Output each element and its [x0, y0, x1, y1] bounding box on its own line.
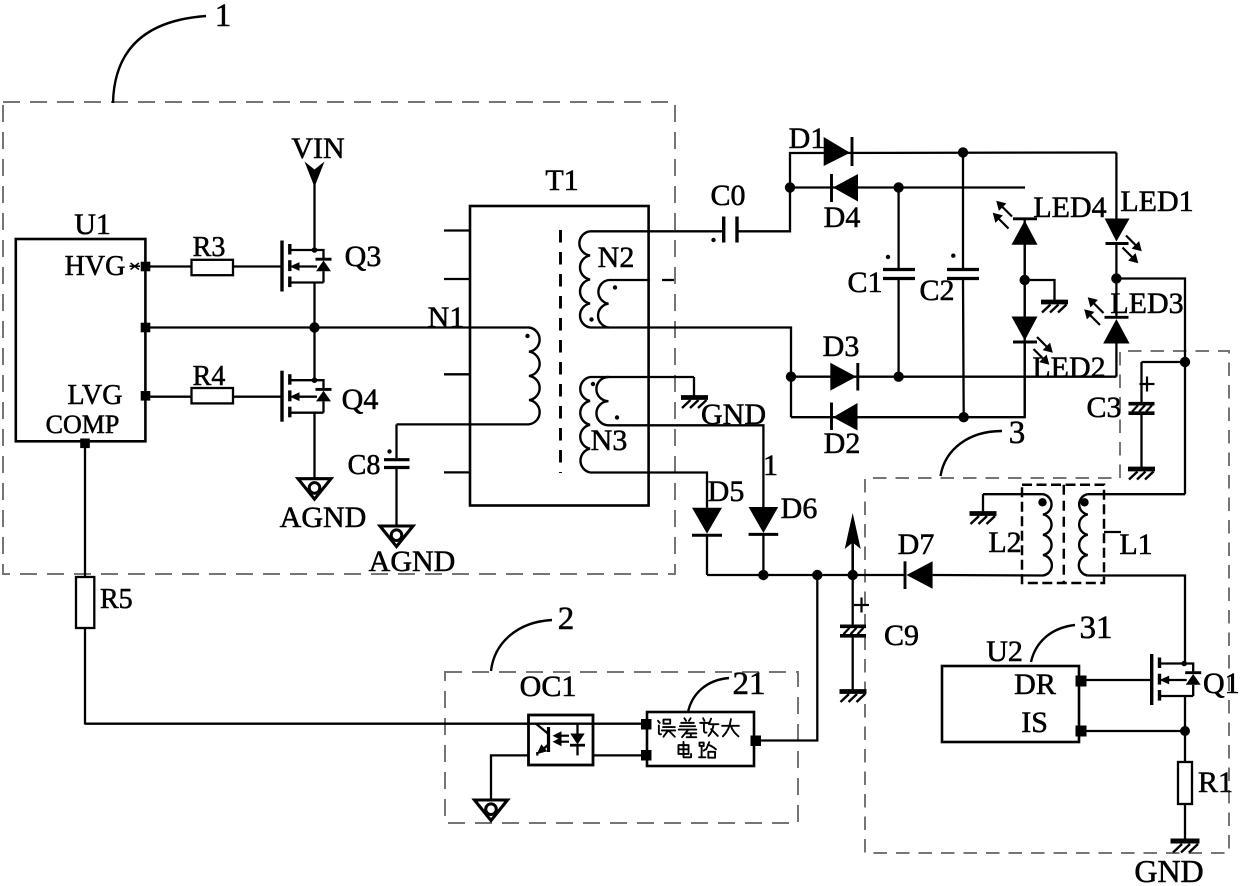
svg-text:LED3: LED3: [1110, 287, 1183, 320]
svg-text:R5: R5: [100, 584, 133, 615]
svg-text:D1: D1: [789, 122, 826, 155]
svg-text:2: 2: [558, 601, 575, 637]
svg-text:D3: D3: [823, 330, 860, 363]
svg-text:LVG: LVG: [68, 380, 123, 411]
svg-text:1: 1: [763, 449, 778, 482]
svg-text:C2: C2: [919, 274, 954, 307]
svg-text:GND: GND: [1134, 853, 1203, 886]
svg-text:D2: D2: [824, 427, 861, 460]
svg-text:1: 1: [215, 0, 232, 34]
svg-text:VIN: VIN: [291, 132, 344, 165]
svg-text:LED1: LED1: [1120, 185, 1193, 218]
svg-text:N3: N3: [591, 424, 628, 457]
svg-text:HVG: HVG: [65, 251, 126, 282]
svg-text:C1: C1: [847, 266, 882, 299]
svg-text:R3: R3: [193, 232, 226, 263]
svg-text:C8: C8: [348, 450, 381, 481]
svg-text:AGND: AGND: [280, 501, 367, 534]
svg-text:L2: L2: [988, 526, 1021, 559]
svg-text:U1: U1: [74, 208, 111, 241]
svg-text:N1: N1: [428, 301, 465, 334]
svg-text:LED2: LED2: [1032, 351, 1105, 384]
svg-text:GND: GND: [701, 398, 766, 431]
svg-text:LED4: LED4: [1033, 191, 1106, 224]
svg-text:N2: N2: [598, 241, 635, 274]
svg-text:OC1: OC1: [520, 670, 577, 703]
svg-text:3: 3: [1009, 415, 1026, 451]
svg-text:L1: L1: [1119, 528, 1152, 561]
svg-text:C9: C9: [884, 619, 919, 652]
svg-text:R1: R1: [1198, 766, 1233, 799]
svg-text:T1: T1: [545, 164, 578, 197]
svg-text:AGND: AGND: [369, 545, 456, 578]
svg-text:C3: C3: [1086, 391, 1121, 424]
svg-text:IS: IS: [1021, 706, 1048, 739]
svg-text:D5: D5: [708, 475, 745, 508]
svg-text:R4: R4: [193, 361, 226, 392]
svg-text:Q3: Q3: [345, 240, 382, 273]
svg-text:Q4: Q4: [342, 383, 379, 416]
svg-text:21: 21: [733, 666, 766, 702]
svg-text:D6: D6: [781, 492, 818, 525]
svg-text:COMP: COMP: [46, 410, 120, 439]
svg-text:C0: C0: [710, 179, 745, 212]
svg-text:Q1: Q1: [1203, 667, 1240, 700]
svg-text:D4: D4: [824, 201, 861, 234]
svg-text:U2: U2: [986, 635, 1023, 668]
svg-text:31: 31: [1080, 610, 1113, 646]
svg-text:D7: D7: [898, 528, 935, 561]
svg-text:DR: DR: [1014, 668, 1056, 701]
